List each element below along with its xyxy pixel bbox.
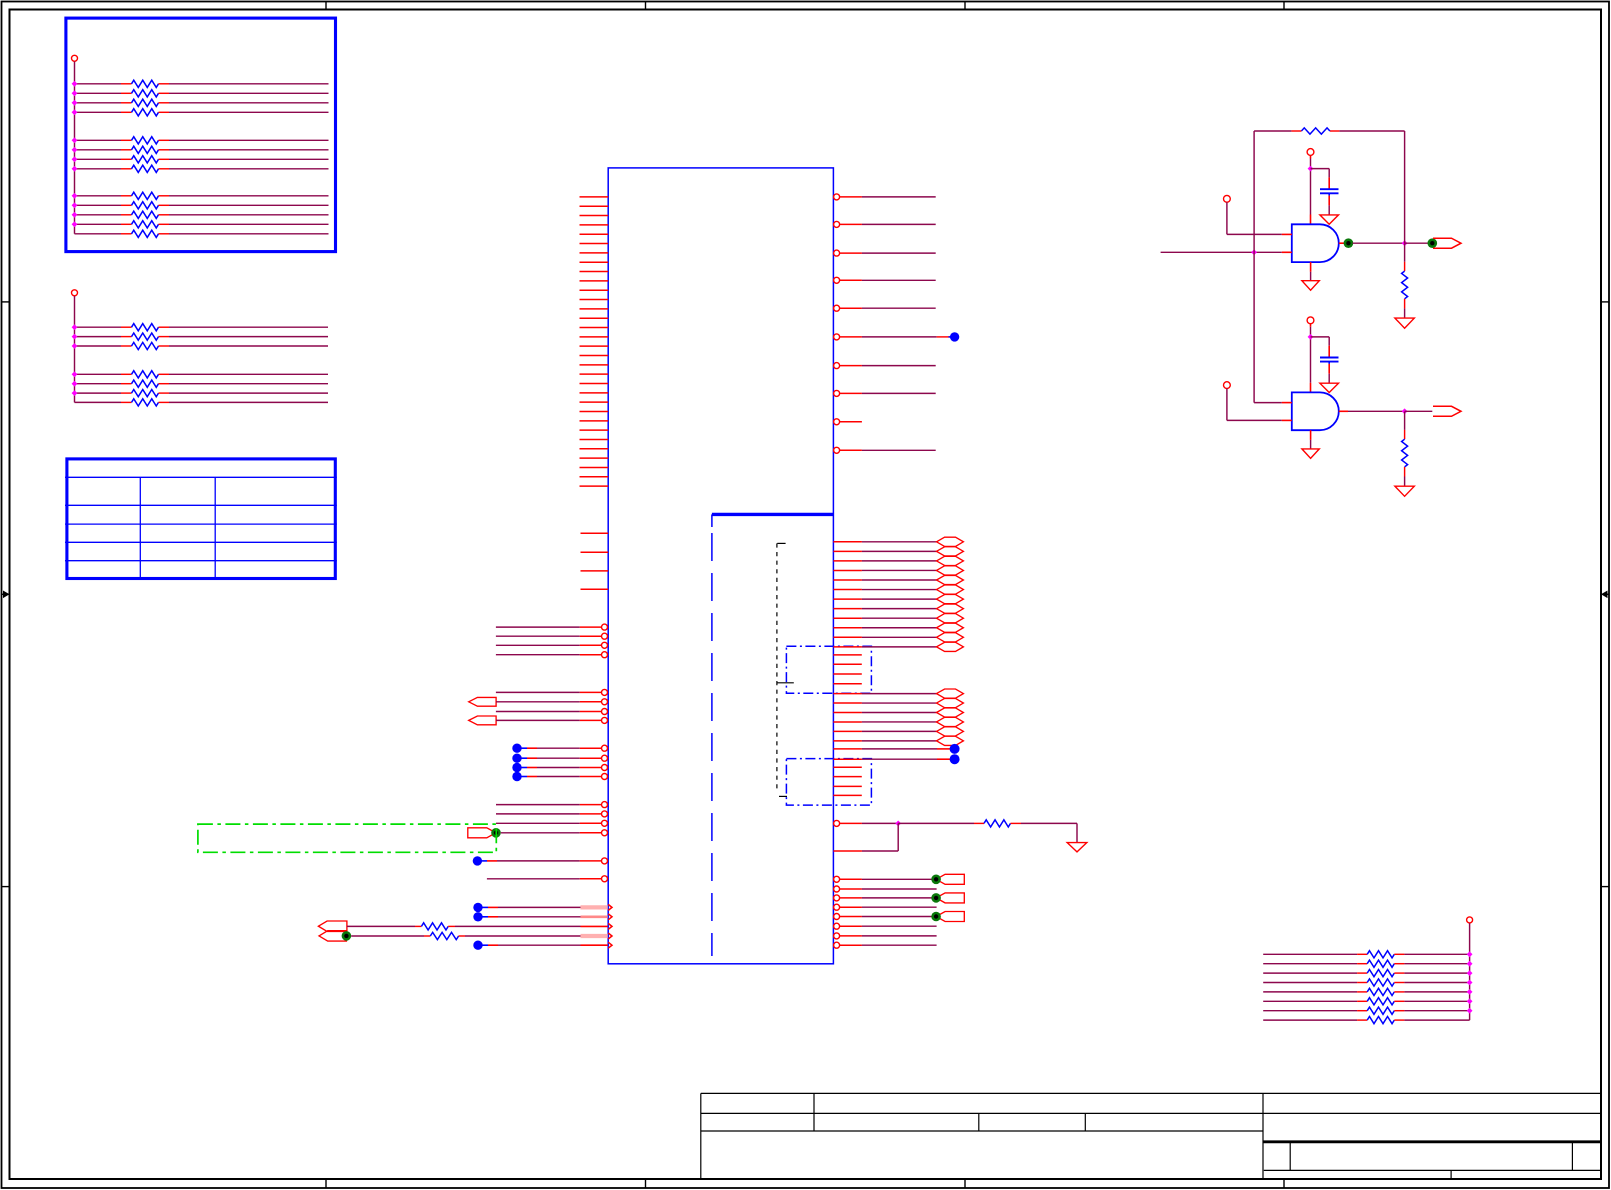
revision table <box>67 459 335 579</box>
decoupling capacitor C2 with power pin <box>1307 317 1314 324</box>
resistor R2-6 with wire <box>75 392 122 394</box>
gate U2B input pin 2 wire <box>1224 382 1231 389</box>
IC U1 left pin E3 with blue node dot <box>512 763 521 772</box>
IC U1 right pin with blue node dot (row 759) <box>833 758 862 760</box>
highlight box (green dash-dot) <box>198 824 496 852</box>
IC U1 right pin 1 with wire <box>834 194 840 200</box>
resistor R1-2 with wire <box>75 92 122 94</box>
sub-block pin A2 (stub) <box>833 663 861 665</box>
IC U1 right pin 6 with wire <box>834 334 840 340</box>
pull resistor R5 to ground <box>1404 243 1406 261</box>
title block <box>701 1092 1600 1094</box>
IC U1 right pin 7 with wire <box>834 363 840 369</box>
IC U1 right pin 8 with wire <box>834 390 840 396</box>
IC U1 left pin G2 with blue node dot <box>473 912 482 921</box>
IC U1 bottom-right pin 3 <box>834 895 840 901</box>
IC U1 bottom-right pin 8 <box>834 942 840 948</box>
resistor R1-1 with wire <box>75 83 122 85</box>
gate U2A bottom stub to ground <box>1310 262 1312 272</box>
resistor R2-3 with wire <box>75 345 122 347</box>
wire branch back to IC (row 851) <box>897 823 899 851</box>
resistor R1-8 with wire <box>75 168 122 170</box>
IC U1 left pin F1 with wire <box>496 804 580 806</box>
resistor R1-5 with wire <box>75 139 122 141</box>
IC U1 left pins group B (4 stubs) <box>581 532 609 534</box>
bus entry hex H1-5 with wire <box>833 579 862 581</box>
IC U1 sub-block top edge <box>712 513 834 516</box>
sub-block pin B1 (stub) <box>833 766 861 768</box>
bus entry hex H1-12 with wire <box>833 646 862 648</box>
resistor R1-12 with wire <box>75 223 122 225</box>
AND gate U2B <box>1292 392 1339 430</box>
sub-block pin B4 (stub) <box>833 794 861 796</box>
wire RP1 common bus vertical <box>74 62 76 234</box>
AND gate U2A <box>1292 224 1339 262</box>
IC U1 left pin G1 with blue node dot <box>473 903 482 912</box>
IC U1 left pin C1 with wire <box>496 626 580 628</box>
bus port chevron with green node on pin G4 <box>319 931 346 941</box>
IC U1 left pin E2 with blue node dot <box>512 754 521 763</box>
IC U1 left pin C4 with wire <box>496 654 580 656</box>
sub-block pin A4 (stub) <box>833 683 861 685</box>
bus entry hex H1-7 with wire <box>833 598 862 600</box>
IC U1 left pin E1 with blue node dot <box>512 744 521 753</box>
IC U1 bottom-right pin 7 <box>834 933 840 939</box>
resistor R1-10 with wire <box>75 204 122 206</box>
resistor R1-9 with wire <box>75 195 122 197</box>
bus entry hex H2-1 with wire <box>833 693 862 695</box>
gate U2A output wire with green nodes <box>1339 242 1345 244</box>
frame zone tick marks <box>325 2 327 10</box>
IC U1 sub-block left edge (dashed) <box>711 533 713 956</box>
port flag (left) on pin D2 <box>469 697 496 706</box>
IC U1 left pin E4 with blue node dot <box>512 772 521 781</box>
IC U1 left pin (row 879) <box>487 878 580 880</box>
sub-block pin B2 (stub) <box>833 776 861 778</box>
wire RP2 common bus vertical <box>74 296 76 402</box>
power tag with green node on pin F4 <box>468 828 496 838</box>
pull resistor R6 to ground <box>1404 412 1406 430</box>
sub-block pin B3 (stub) <box>833 785 861 787</box>
resistor R1-13 with wire <box>75 233 122 235</box>
gate U2B bottom stub to ground <box>1310 430 1312 440</box>
bus entry hex H1-11 with wire <box>833 636 862 638</box>
bus entry hex H1-3 with wire <box>833 560 862 562</box>
partition line (black dashed) <box>776 543 778 790</box>
IC U1 left pin G5 with blue node dot <box>473 941 482 950</box>
terminal open circle (RP2 common) <box>72 290 78 296</box>
IC U1 left pin C2 with wire <box>496 635 580 637</box>
bus entry hex H2-5 with wire <box>833 730 862 732</box>
frame centerline arrow right <box>1605 593 1609 595</box>
gate U2A input pin 2 wire <box>1161 251 1282 253</box>
junction node (feedback/input) <box>1251 249 1257 255</box>
series resistor R3 with wire <box>898 822 974 824</box>
resistor R7-4 with wire <box>1263 982 1357 984</box>
bus entry hex H2-4 with wire <box>833 721 862 723</box>
bus entry hex H1-4 with wire <box>833 569 862 571</box>
IC U1 bottom-right pin 6 <box>834 923 840 929</box>
resistor R1-3 with wire <box>75 102 122 104</box>
gate U2B output wire <box>1339 410 1348 412</box>
resistor R1-4 with wire <box>75 111 122 113</box>
IC U1 left pins group A (32 stubs) <box>580 196 609 198</box>
IC U1 left pin F2 with wire <box>496 813 580 815</box>
feedback resistor R4 loop <box>1404 131 1406 243</box>
IC U1 bottom-right pin 2 <box>834 886 840 892</box>
IC U1 body outline <box>608 168 833 964</box>
IC U1 right pin 9 with wire <box>834 419 840 425</box>
decoupling capacitor C1 with power pin <box>1307 149 1314 156</box>
bus port chevron on pin G3 <box>318 921 347 931</box>
IC U1 left pin with blue node dot (row 861) <box>473 856 482 865</box>
IC U1 bottom-right pin 1 <box>834 876 840 882</box>
bus entry hex H2-6 with wire <box>833 740 862 742</box>
resistor R7-2 with wire <box>1263 963 1357 965</box>
wire RP3 common bus vertical <box>1469 923 1471 1020</box>
resistor R7-5 with wire <box>1263 991 1357 993</box>
resistor R2-5 with wire <box>75 383 122 385</box>
IC U1 right pin 2 with wire <box>834 221 840 227</box>
output port flag (U2B) <box>1433 406 1461 416</box>
resistor R7-8 with wire <box>1263 1019 1357 1021</box>
output port flag (U2A) <box>1433 238 1461 248</box>
bus entry hex H1-8 with wire <box>833 608 862 610</box>
series resistor R-G3 with wire <box>347 925 415 927</box>
group box (dash-dot) B <box>786 759 871 806</box>
IC U1 bottom-right pin 4 <box>834 904 840 910</box>
resistor R7-3 with wire <box>1263 972 1357 974</box>
resistor pack box RP1 outline <box>66 18 336 252</box>
gate U2B input pin 1 wire <box>1254 402 1282 404</box>
resistor R7-1 with wire <box>1263 953 1357 955</box>
group box (dash-dot) A <box>786 646 871 693</box>
sub-block pin A1 (stub) <box>833 654 861 656</box>
IC U1 right pin 10 with wire <box>834 447 840 453</box>
bus entry hex H2-3 with wire <box>833 712 862 714</box>
IC U1 bottom-right pin 5 <box>834 914 840 920</box>
IC U1 right pin (row 823) with open circle <box>834 820 840 826</box>
IC U1 left pin C3 with wire <box>496 644 580 646</box>
bus entry hex H1-1 with wire <box>833 541 862 543</box>
bus entry hex H2-2 with wire <box>833 702 862 704</box>
resistor R7-6 with wire <box>1263 1000 1357 1002</box>
IC U1 right pin 3 with wire <box>834 250 840 256</box>
resistor R7-7 with wire <box>1263 1010 1357 1012</box>
port flag (left) on pin D4 <box>469 716 496 725</box>
resistor R1-7 with wire <box>75 158 122 160</box>
IC U1 right pin with blue node dot (row 748) <box>833 748 862 750</box>
series resistor R-G4 with wire <box>351 935 424 937</box>
sub-block pin A3 (stub) <box>833 673 861 675</box>
IC U1 right pin 4 with wire <box>834 277 840 283</box>
resistor R2-7 with wire <box>75 401 122 403</box>
IC U1 left pin D3 with wire <box>496 711 580 713</box>
terminal open circle (RP3 common) <box>1467 917 1473 923</box>
bus entry hex H1-9 with wire <box>833 617 862 619</box>
bus entry hex H1-10 with wire <box>833 627 862 629</box>
IC U1 right pin 5 with wire <box>834 305 840 311</box>
bus entry hex H1-6 with wire <box>833 589 862 591</box>
bus entry hex H1-2 with wire <box>833 550 862 552</box>
IC U1 left pin F3 with wire <box>496 822 580 824</box>
terminal open circle (RP1 common) <box>72 55 78 61</box>
IC U1 left pin D1 with wire <box>496 691 580 693</box>
resistor R2-2 with wire <box>75 336 122 338</box>
resistor R2-1 with wire <box>75 326 122 328</box>
ground symbol (R3) <box>1067 843 1087 852</box>
frame centerline arrow left <box>2 593 7 595</box>
gate U2A input pin 1 wire <box>1224 195 1231 202</box>
resistor R1-6 with wire <box>75 149 122 151</box>
resistor R2-4 with wire <box>75 373 122 375</box>
junction node (row 823) <box>895 821 901 827</box>
resistor R1-11 with wire <box>75 214 122 216</box>
